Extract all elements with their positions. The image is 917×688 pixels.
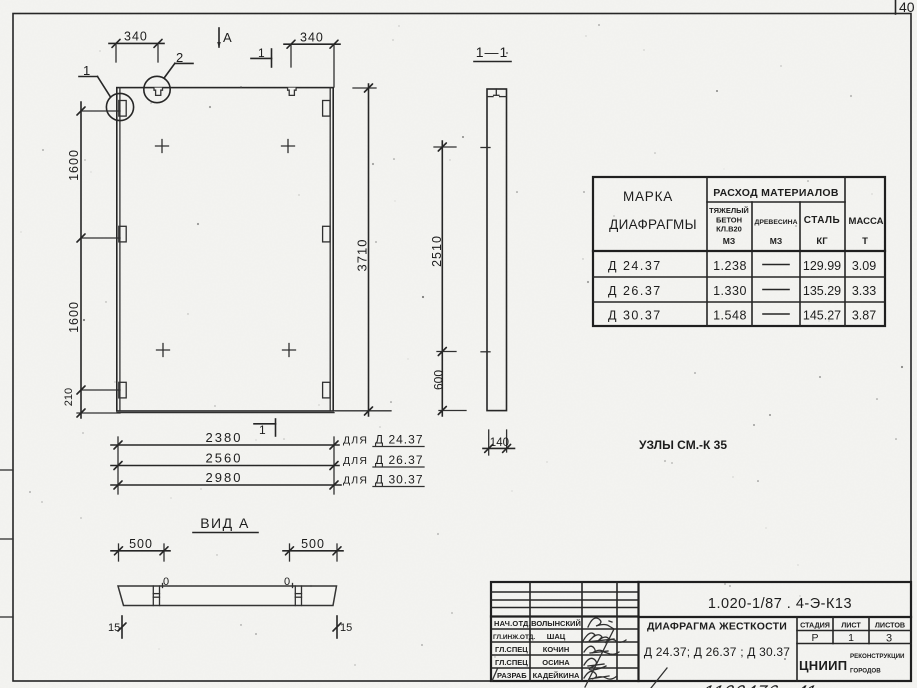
dimension 340 top-right: [284, 31, 340, 88]
svg-text:3.09: 3.09: [852, 259, 876, 273]
svg-text:1.020-1/87 . 4-Э-К13: 1.020-1/87 . 4-Э-К13: [708, 596, 852, 612]
svg-text:1: 1: [259, 423, 266, 437]
svg-text:135.29: 135.29: [803, 284, 841, 298]
svg-text:МЗ: МЗ: [770, 236, 782, 246]
svg-text:A: A: [223, 30, 232, 45]
materials table frame: [593, 177, 885, 326]
svg-text:3710: 3710: [355, 239, 370, 272]
section mark 1 (bottom of panel): [254, 419, 276, 437]
svg-text:2980: 2980: [206, 470, 243, 485]
svg-text:1.238: 1.238: [713, 259, 747, 273]
view A lifting loop right: [284, 576, 302, 606]
svg-text:РЕКОНСТРУКЦИИ: РЕКОНСТРУКЦИИ: [850, 653, 905, 660]
main view: panel outline: [117, 88, 334, 413]
svg-text:2510: 2510: [430, 235, 444, 267]
svg-text:1—1: 1—1: [476, 44, 509, 60]
title block signatures: [583, 618, 667, 688]
title block stage/sheet grid: [797, 617, 911, 681]
bottom length dimension 2380 for Д 24.37: [111, 430, 424, 494]
svg-text:1600: 1600: [67, 149, 81, 181]
svg-text:НАЧ.ОТД.: НАЧ.ОТД.: [494, 619, 531, 628]
left dimension chain 1600/1600/210: [63, 102, 120, 418]
view A dimension 500 left: [111, 537, 170, 561]
svg-text:РАЗРАБ: РАЗРАБ: [497, 671, 527, 680]
svg-text:Т: Т: [862, 236, 868, 247]
side notch plates left column: [119, 101, 126, 398]
svg-text:3.87: 3.87: [852, 309, 876, 323]
section dimension chain 2510/600: [430, 141, 490, 416]
title block name cell: [644, 621, 790, 660]
svg-text:ДЛЯ: ДЛЯ: [343, 435, 368, 447]
svg-text:3.33: 3.33: [852, 284, 876, 298]
svg-text:1.330: 1.330: [713, 284, 747, 298]
svg-text:МЗ: МЗ: [723, 236, 735, 246]
svg-text:ГОРОДОВ: ГОРОДОВ: [850, 668, 881, 675]
title block person names: [531, 619, 581, 680]
top keyway notch right: [288, 88, 297, 96]
section mark 1 (top): [251, 46, 272, 67]
svg-text:145.27: 145.27: [803, 309, 841, 323]
svg-text:Д 24.37: Д 24.37: [375, 433, 424, 447]
table row Д 24.37: [608, 259, 876, 273]
svg-text:УЗЛЫ СМ.-К 35: УЗЛЫ СМ.-К 35: [639, 438, 727, 452]
svg-text:1600: 1600: [67, 301, 81, 333]
svg-text:КГ: КГ: [816, 236, 828, 247]
view A edge offset 15 right: [333, 616, 352, 638]
right dimension 3710: [334, 84, 391, 416]
table header МАРКА ДИАФРАГМЫ: [609, 189, 697, 232]
svg-text:ТЯЖЕЛЫЙ: ТЯЖЕЛЫЙ: [709, 206, 749, 215]
svg-text:500: 500: [301, 537, 325, 551]
svg-text:1: 1: [258, 46, 265, 60]
svg-text:КЛ.В20: КЛ.В20: [716, 225, 742, 234]
svg-text:ЦНИИП: ЦНИИП: [799, 658, 847, 673]
svg-text:ДРЕВЕСИНА: ДРЕВЕСИНА: [755, 219, 798, 226]
svg-text:Р: Р: [811, 632, 818, 644]
table sub-header concrete: [709, 206, 749, 246]
table sub-header wood: [755, 219, 798, 246]
bottom length dimension 2560 for Д 26.37: [111, 451, 424, 470]
svg-text:1: 1: [848, 632, 854, 644]
svg-text:КОЧИН: КОЧИН: [543, 645, 570, 654]
table header РАСХОД МАТЕРИАЛОВ: [713, 187, 839, 199]
svg-text:ГЛ.СПЕЦ: ГЛ.СПЕЦ: [495, 658, 528, 667]
svg-text:ДИАФРАГМЫ: ДИАФРАГМЫ: [609, 217, 697, 232]
svg-text:МАРКА: МАРКА: [623, 189, 673, 204]
svg-text:СТАДИЯ: СТАДИЯ: [800, 621, 830, 630]
svg-text:ОСИНА: ОСИНА: [542, 658, 570, 667]
table sub-header mass: [849, 216, 884, 247]
svg-text:40: 40: [899, 0, 915, 15]
svg-text:0: 0: [284, 576, 290, 588]
title block outer frame: [491, 582, 911, 681]
view A dimension 500 right: [283, 537, 343, 561]
svg-text:140: 140: [490, 437, 509, 449]
svg-text:СТАЛЬ: СТАЛЬ: [804, 215, 841, 226]
svg-text:2380: 2380: [206, 430, 243, 445]
table row Д 26.37: [608, 284, 876, 298]
svg-text:0: 0: [163, 576, 169, 588]
table sub-header steel: [804, 215, 841, 247]
svg-text:1.548: 1.548: [713, 309, 747, 323]
svg-text:3: 3: [886, 633, 892, 645]
svg-text:Д 24.37: Д 24.37: [608, 259, 662, 273]
svg-text:Д 30.37: Д 30.37: [375, 473, 424, 487]
svg-text:2560: 2560: [206, 451, 243, 466]
svg-text:ЛИСТОВ: ЛИСТОВ: [875, 621, 905, 630]
svg-text:РАСХОД МАТЕРИАЛОВ: РАСХОД МАТЕРИАЛОВ: [713, 187, 839, 199]
handwritten archive number below frame: [700, 681, 818, 688]
svg-text:ДЛЯ: ДЛЯ: [343, 475, 368, 487]
svg-text:Д 26.37: Д 26.37: [608, 284, 662, 298]
note УЗЛЫ СМ.-К 35: [639, 438, 727, 452]
svg-text:ГЛ.СПЕЦ: ГЛ.СПЕЦ: [495, 645, 528, 654]
svg-text:210: 210: [63, 388, 75, 406]
section thickness dimension 140: [483, 430, 515, 455]
lifting fixture crosses: [156, 140, 296, 357]
section 1-1 body: [487, 89, 507, 411]
title block organization: [799, 653, 905, 675]
view A lifting loop left: [153, 576, 169, 606]
svg-text:ГЛ.ИНЖ.ОТД.: ГЛ.ИНЖ.ОТД.: [493, 634, 535, 641]
page number box 40 top right: [896, 0, 915, 15]
svg-text:ЛИСТ: ЛИСТ: [841, 621, 861, 630]
svg-text:ДИАФРАГМА ЖЕСТКОСТИ: ДИАФРАГМА ЖЕСТКОСТИ: [647, 621, 787, 633]
title block signature grid: [491, 582, 639, 681]
view A edge offset 15 left: [108, 616, 126, 638]
svg-text:15: 15: [108, 622, 120, 634]
view direction arrow A: [217, 28, 232, 48]
svg-text:1: 1: [83, 63, 90, 78]
svg-text:2: 2: [176, 50, 183, 65]
svg-text:Д 26.37: Д 26.37: [375, 453, 424, 467]
svg-text:КАДЕЙКИНА: КАДЕЙКИНА: [533, 671, 580, 680]
bottom length dimension 2980 for Д 30.37: [111, 470, 424, 489]
svg-text:1100476: 1100476: [700, 681, 782, 688]
svg-text:Д 24.37; Д 26.37 ; Д 30.37: Д 24.37; Д 26.37 ; Д 30.37: [644, 645, 790, 659]
view A label: [193, 515, 258, 533]
top keyway notch left (detail 2): [154, 88, 163, 96]
paper grain overlay (decorative): [0, 0, 1, 1]
svg-text:МАССА: МАССА: [849, 216, 884, 227]
svg-text:340: 340: [124, 30, 148, 44]
svg-text:ШАЦ: ШАЦ: [547, 632, 566, 641]
section 1-1 label: [474, 44, 511, 62]
title block document number: [708, 596, 852, 612]
svg-text:БЕТОН: БЕТОН: [716, 216, 742, 225]
svg-text:600: 600: [432, 370, 446, 390]
svg-text:Д 30.37: Д 30.37: [608, 309, 662, 323]
svg-text:340: 340: [300, 31, 324, 45]
table row Д 30.37: [608, 309, 876, 323]
svg-text:15: 15: [340, 622, 352, 634]
left margin filing ticks: [0, 470, 13, 617]
detail callout circle 1: [79, 63, 134, 121]
svg-text:ДЛЯ: ДЛЯ: [343, 455, 368, 467]
detail callout circle 2: [144, 50, 193, 103]
svg-text:129.99: 129.99: [803, 259, 841, 273]
svg-text:ВОЛЫНСКИЙ: ВОЛЫНСКИЙ: [531, 619, 581, 628]
svg-text:ВИД А: ВИД А: [200, 515, 250, 531]
svg-text:500: 500: [129, 537, 153, 551]
side notch plates right column: [323, 101, 330, 398]
view A panel bar: [118, 586, 337, 606]
title block role names: [492, 619, 535, 681]
dimension 340 top-left: [109, 30, 164, 63]
